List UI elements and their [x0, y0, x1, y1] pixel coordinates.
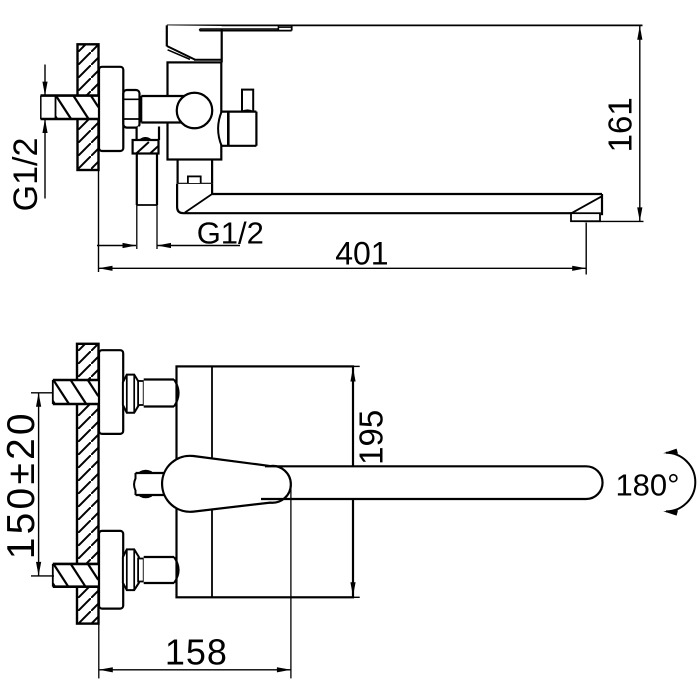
svg-text:G1/2: G1/2 — [197, 216, 264, 251]
svg-text:401: 401 — [335, 235, 388, 271]
diverter knob — [218, 112, 256, 146]
handle (teardrop front) — [162, 456, 291, 512]
svg-text:180°: 180° — [615, 468, 679, 503]
upper hex nut — [123, 375, 139, 413]
svg-text:195: 195 — [352, 410, 389, 465]
down outlet tube G1/2 — [137, 140, 157, 205]
svg-text:161: 161 — [601, 97, 638, 152]
dimension 401 — [99, 223, 587, 275]
spout base + spout (side) — [177, 184, 602, 215]
lever blade — [200, 26, 292, 31]
dimension 195 — [350, 366, 389, 597]
svg-text:G1/2: G1/2 — [7, 138, 45, 212]
diverter stem — [242, 90, 253, 113]
down outlet flange — [137, 127, 159, 141]
escutcheon plate — [99, 67, 123, 151]
wire spout outline over handle — [261, 466, 603, 499]
small tab — [188, 176, 201, 184]
svg-text:158: 158 — [165, 632, 228, 673]
180° swivel annotation — [615, 449, 695, 516]
faucet body (front) — [177, 366, 354, 597]
swivel spout (front, long capsule) — [255, 466, 603, 499]
wire wall right edge extension down to dimensions — [98, 170, 100, 272]
lower hex nut — [123, 549, 139, 590]
lower inlet pipe (hatched) — [53, 564, 99, 587]
wire wall edge extension to 158 dim — [98, 624, 100, 679]
upper inlet pipe (hatched) — [53, 380, 99, 404]
dimension 158 — [99, 632, 291, 673]
upper inlet boss — [144, 380, 179, 407]
hex nut on eccentric — [123, 90, 139, 128]
body inner line — [211, 366, 213, 597]
upper collar — [138, 381, 144, 405]
lower escutcheon — [99, 531, 123, 609]
ball joint circle — [177, 93, 213, 129]
svg-text:150±20: 150±20 — [0, 410, 43, 559]
lower inlet boss — [144, 557, 179, 583]
dimension G1/2 bottom (tube) — [97, 216, 264, 251]
wire tube edge extensions — [136, 205, 138, 249]
handle cap — [167, 25, 222, 62]
cartridge section under body — [178, 160, 213, 184]
dimension 161 — [584, 26, 644, 222]
hatched anchor block — [133, 138, 159, 153]
lever handle top line + extension to 161 dim — [167, 24, 643, 26]
inlet pipe G1/2 (hatched cross-section through wall) — [41, 96, 99, 119]
lower collar — [138, 559, 144, 582]
handle knob boss — [134, 471, 168, 497]
wall (hatched) — [78, 44, 99, 170]
faucet body (side) — [168, 62, 222, 159]
wire handle tip extension to 158 dim — [290, 482, 292, 678]
upper escutcheon — [99, 350, 123, 434]
aerator under spout tip — [571, 213, 600, 221]
dimension 150±20 — [0, 393, 54, 576]
connector pipe nut->ball — [141, 96, 185, 123]
dimension G1/2 left (pipe) — [7, 65, 48, 212]
wall (hatched) — [77, 344, 99, 624]
